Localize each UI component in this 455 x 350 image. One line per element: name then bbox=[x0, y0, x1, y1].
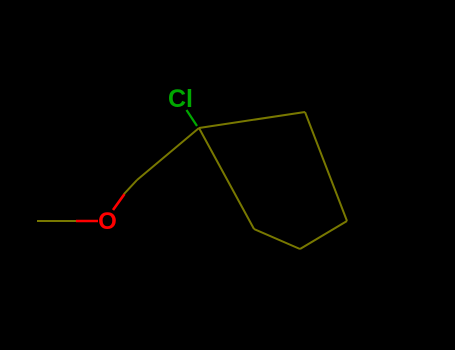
ring bond V1-V5 bbox=[199, 112, 305, 128]
wire bond CH2-O (red) bbox=[76, 220, 98, 223]
ring bond B2-V1 bbox=[199, 128, 254, 229]
wire bond CH3-CH2 (ethyl, olive) bbox=[37, 220, 76, 222]
svg-text:O: O bbox=[98, 208, 117, 235]
svg-text:Cl: Cl bbox=[168, 85, 193, 113]
ring bond V6-B1 bbox=[300, 221, 347, 249]
ring bond B1-B2 bbox=[254, 229, 300, 249]
wire bond O-X red half bbox=[113, 194, 125, 210]
wire bond X-V1 bbox=[137, 128, 199, 180]
wire bond V1-Cl (green) bbox=[187, 110, 198, 126]
ring bond V5-V6 bbox=[305, 112, 347, 221]
wire bond O-X olive half bbox=[124, 180, 137, 194]
